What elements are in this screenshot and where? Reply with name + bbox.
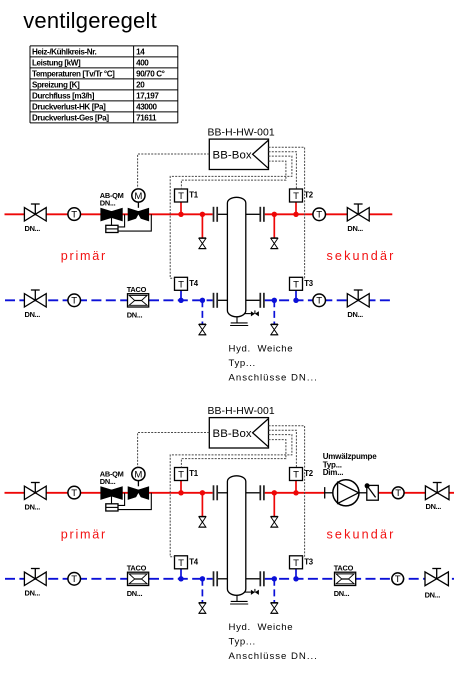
sensor box A-T4 temperature sensor xyxy=(175,277,199,290)
svg-text:ventilgeregelt: ventilgeregelt xyxy=(23,8,157,33)
svg-text:DN...: DN... xyxy=(25,310,41,319)
wire signal B BB-Box to sensor T3 (dashed) xyxy=(269,426,305,557)
svg-text:T: T xyxy=(71,488,77,499)
wire signal A BB-Box to sensor T2 (dashed) xyxy=(269,152,297,189)
wire red drop to left drain B xyxy=(201,493,203,517)
svg-text:T: T xyxy=(71,210,77,221)
wire black pump discharge segment B xyxy=(359,492,367,494)
wire signal B BB-Box to sensor T2 (dashed) xyxy=(269,430,297,467)
svg-text:BB-H-HW-001: BB-H-HW-001 xyxy=(208,406,275,417)
sensor box B-T4 temperature sensor xyxy=(175,556,199,569)
svg-text:T: T xyxy=(293,470,299,481)
svg-text:T1: T1 xyxy=(189,191,198,200)
wire red supply pipe A left segment xyxy=(5,213,213,215)
wire signal A BB-Box to sensor T1 (dashed) xyxy=(181,161,286,189)
valve shutoff A-V7 blue return DN... xyxy=(24,290,46,319)
svg-text:14: 14 xyxy=(136,47,145,56)
svg-text:TACO: TACO xyxy=(127,563,147,572)
wire blue drop to right drain B (dashed) xyxy=(273,579,275,603)
drain valve KFE B blue left xyxy=(199,603,206,614)
flange pair B red left xyxy=(214,485,218,500)
svg-text:Druckverlust-HK [Pa]: Druckverlust-HK [Pa] xyxy=(32,102,106,111)
thermometer B-TH3 blue sekundaer xyxy=(392,573,404,585)
svg-text:TACO: TACO xyxy=(127,285,147,294)
svg-text:M: M xyxy=(134,191,142,202)
svg-text:Typ...: Typ... xyxy=(229,358,256,369)
wire black stub B separator to blue-right flange xyxy=(246,578,260,580)
svg-text:T: T xyxy=(293,558,299,569)
node A red junction T2-tap xyxy=(293,212,298,217)
wire red stub T2 sensor to pipe A xyxy=(295,202,297,214)
wire red drop to left drain A xyxy=(201,214,203,238)
flange pair A red left xyxy=(214,207,218,222)
svg-text:sekundär: sekundär xyxy=(327,249,394,263)
svg-text:BB-H-HW-001: BB-H-HW-001 xyxy=(208,128,275,139)
valve shutoff B-V7 blue return DN... xyxy=(24,569,46,598)
svg-text:Hyd. Weiche: Hyd. Weiche xyxy=(229,344,293,355)
svg-text:DN...: DN... xyxy=(127,310,143,319)
sensor box A-T2 temperature sensor xyxy=(290,189,314,202)
flange pair B red right xyxy=(260,485,264,500)
ground / drain symbol below separator A xyxy=(230,317,248,326)
svg-text:T1: T1 xyxy=(189,469,198,478)
controller BB-Box B-U1 with label BB-H-HW-001 xyxy=(208,406,275,448)
wire black stub A blue-left to separator xyxy=(218,299,227,301)
valve AB-QM A-V2 (flow limiter, filled) with membrane box and capillaries xyxy=(100,191,152,233)
svg-text:T4: T4 xyxy=(189,557,198,566)
svg-text:DN...: DN... xyxy=(25,502,41,511)
svg-text:43000: 43000 xyxy=(136,102,157,111)
wire blue stub T3 sensor to pipe A xyxy=(295,290,297,300)
node B red junction T2-tap xyxy=(293,490,298,495)
wire blue drop to left drain A (dashed) xyxy=(201,300,203,324)
valve shutoff A-V1 red primaer DN... xyxy=(24,204,46,233)
wire black stub B red-left to separator xyxy=(218,492,227,494)
node B blue junction T3-tap xyxy=(293,576,298,581)
svg-text:Anschlüsse DN...: Anschlüsse DN... xyxy=(229,373,317,384)
wire red drop to right drain A xyxy=(273,214,275,238)
svg-text:TACO: TACO xyxy=(334,563,354,572)
valve shutoff B-V5 red sekundaer DN... xyxy=(425,483,449,512)
svg-text:Leistung [kW]: Leistung [kW] xyxy=(32,58,81,67)
svg-text:T: T xyxy=(395,488,401,499)
wire red stub T1 sensor to pipe A xyxy=(180,202,182,214)
label Hyd. Weiche caption B xyxy=(229,622,317,662)
wire blue return pipe B right segment (dashed) xyxy=(265,578,454,580)
thermometer B-TH1 red primaer xyxy=(68,486,81,499)
thermometer A-TH2 red sekundaer xyxy=(313,208,326,221)
svg-text:DN...: DN... xyxy=(347,224,363,233)
wire blue return pipe A left segment (dashed) xyxy=(5,299,213,301)
drain valve KFE A red left xyxy=(199,238,206,249)
drain cock at separator bottom B xyxy=(244,589,259,595)
node B blue junction right drain tap xyxy=(272,576,277,581)
svg-text:Temperaturen [Tv/Tr °C]: Temperaturen [Tv/Tr °C] xyxy=(32,69,115,78)
wire red supply pipe B after check valve xyxy=(378,492,454,494)
flange pair A blue right xyxy=(260,293,264,308)
motor actuator A-M1 (M drive on valve V3) xyxy=(132,189,145,208)
TACO balancing fitting A-F1 on blue return left xyxy=(127,285,149,319)
wire red drop to right drain B xyxy=(273,493,275,517)
sensor box A-T1 temperature sensor xyxy=(175,189,199,202)
wire red stub T1 sensor to pipe B xyxy=(180,481,182,493)
svg-text:T2: T2 xyxy=(304,191,313,200)
pump B-P1 Umwaelzpumpe (circle with flow triangle) xyxy=(333,480,359,506)
wire black stub A separator to blue-right flange xyxy=(246,299,260,301)
label Hyd. Weiche caption A xyxy=(229,344,317,384)
svg-text:DN...: DN... xyxy=(25,224,41,233)
drain valve KFE B blue right xyxy=(271,603,278,614)
drain valve KFE B red right xyxy=(271,516,278,527)
svg-text:T4: T4 xyxy=(189,279,198,288)
label Umwaelzpumpe Typ Dim B xyxy=(323,452,378,477)
valve shutoff A-V6 blue sekundaer DN... xyxy=(347,290,369,319)
thermometer B-TH2 red sekundaer xyxy=(392,487,404,499)
valve shutoff B-V1 red primaer DN... xyxy=(24,483,46,512)
valve shutoff B-V6 blue sekundaer DN... xyxy=(425,569,449,600)
node B red junction T1-tap xyxy=(178,490,183,495)
node B red junction left drain tap xyxy=(200,490,205,495)
svg-text:T: T xyxy=(316,210,322,221)
svg-text:Dim...: Dim... xyxy=(323,468,344,477)
svg-text:Hyd. Weiche: Hyd. Weiche xyxy=(229,622,293,633)
svg-text:DN...: DN... xyxy=(127,589,143,598)
TACO balancing fitting B-F2 on blue return sekundaer xyxy=(334,563,356,597)
sensor box B-T2 temperature sensor xyxy=(290,468,314,481)
svg-text:T: T xyxy=(178,191,184,202)
sensor box B-T3 temperature sensor xyxy=(290,556,314,569)
wire red stub T2 sensor to pipe B xyxy=(295,481,297,493)
node B blue junction left drain tap xyxy=(200,576,205,581)
svg-text:20: 20 xyxy=(136,80,145,89)
wire black stub B blue-left to separator xyxy=(218,578,227,580)
svg-text:BB-Box: BB-Box xyxy=(213,150,252,162)
svg-text:DN...: DN... xyxy=(334,589,350,598)
svg-text:Durchfluss [m3/h]: Durchfluss [m3/h] xyxy=(32,91,95,100)
ground / drain symbol below separator B xyxy=(230,595,248,604)
wire black stub B separator to red-right flange xyxy=(246,492,260,494)
valve AB-QM B-V2 (flow limiter, filled) with membrane box and capillaries xyxy=(100,469,152,511)
wire blue drop to right drain A (dashed) xyxy=(273,300,275,324)
valve shutoff A-V5 red sekundaer DN... xyxy=(347,204,369,233)
wire signal B BB-Box to sensor T4 (dashed) xyxy=(170,435,292,557)
wire signal A BB-Box to sensor T4 (dashed) xyxy=(170,156,292,278)
node A red junction left drain tap xyxy=(200,212,205,217)
svg-text:17,197: 17,197 xyxy=(136,91,159,100)
wire signal B BB-Box to sensor T1 (dashed) xyxy=(181,440,286,468)
hydraulic separator vessel A-W1 (Hyd. Weiche) xyxy=(227,197,245,317)
drain cock at separator bottom A xyxy=(244,310,259,316)
wire red supply pipe B right segment to pump inlet flange xyxy=(265,492,325,494)
wire black stub A separator to red-right flange xyxy=(246,213,260,215)
node A blue junction T4-tap xyxy=(178,298,183,303)
node A blue junction left drain tap xyxy=(200,298,205,303)
svg-text:M: M xyxy=(134,469,142,480)
drain valve KFE A blue right xyxy=(271,324,278,335)
svg-text:Anschlüsse DN...: Anschlüsse DN... xyxy=(229,651,317,662)
svg-text:sekundär: sekundär xyxy=(327,528,394,542)
node B red junction right drain tap xyxy=(272,490,277,495)
svg-text:T3: T3 xyxy=(304,557,313,566)
controller BB-Box A-U1 with label BB-H-HW-001 xyxy=(208,128,275,170)
svg-text:primär: primär xyxy=(61,249,105,263)
svg-text:Spreizung [K]: Spreizung [K] xyxy=(32,80,80,89)
node A red junction right drain tap xyxy=(272,212,277,217)
drain valve KFE B red left xyxy=(199,516,206,527)
svg-text:DN...: DN... xyxy=(426,502,442,511)
thermometer B-TH4 blue return left xyxy=(68,573,81,586)
node A blue junction T3-tap xyxy=(293,298,298,303)
wire blue return pipe B left segment (dashed) xyxy=(5,578,213,580)
svg-text:Heiz-/Kühlkreis-Nr.: Heiz-/Kühlkreis-Nr. xyxy=(32,47,97,56)
svg-text:Typ...: Typ... xyxy=(229,637,256,648)
hydraulic separator vessel B-W1 (Hyd. Weiche) xyxy=(227,476,245,596)
svg-text:T: T xyxy=(293,191,299,202)
svg-text:Druckverlust-Ges [Pa]: Druckverlust-Ges [Pa] xyxy=(32,113,109,122)
svg-text:T: T xyxy=(178,470,184,481)
drain valve KFE A red right xyxy=(271,238,278,249)
wire blue stub T4 sensor to pipe A xyxy=(180,290,182,300)
flange pair B blue left xyxy=(214,571,218,586)
motor actuator B-M1 (M drive on valve V3) xyxy=(132,467,145,486)
thermometer A-TH3 blue sekundaer xyxy=(313,294,326,307)
wire red supply pipe A right segment xyxy=(265,213,393,215)
drain valve KFE A blue left xyxy=(199,324,206,335)
wire blue return pipe A right segment (dashed) xyxy=(265,299,393,301)
svg-text:400: 400 xyxy=(136,58,149,67)
svg-text:T: T xyxy=(178,558,184,569)
flange tick before pump B xyxy=(324,487,326,498)
svg-text:T2: T2 xyxy=(304,469,313,478)
svg-text:71611: 71611 xyxy=(136,113,157,122)
table circuit data (Heiz-/Kuehlkreis) xyxy=(30,46,178,123)
wire blue stub T3 sensor to pipe B xyxy=(295,569,297,579)
svg-text:T3: T3 xyxy=(304,279,313,288)
svg-text:primär: primär xyxy=(61,528,105,542)
node B blue junction T4-tap xyxy=(178,576,183,581)
svg-text:T: T xyxy=(71,296,77,307)
check valve B-RV1 (non-return flap) xyxy=(365,483,379,500)
thermometer A-TH1 red primaer xyxy=(68,208,81,221)
svg-text:T: T xyxy=(178,280,184,291)
TACO balancing fitting B-F1 on blue return left xyxy=(127,563,149,597)
flange pair B blue right xyxy=(260,571,264,586)
svg-text:90/70 C°: 90/70 C° xyxy=(136,69,165,78)
wire blue stub T4 sensor to pipe B xyxy=(180,569,182,579)
svg-text:DN...: DN... xyxy=(100,198,116,207)
thermometer A-TH4 blue return left xyxy=(68,294,81,307)
svg-text:DN...: DN... xyxy=(425,590,441,599)
svg-text:DN...: DN... xyxy=(25,588,41,597)
wire signal A BB-Box to sensor T3 (dashed) xyxy=(269,147,305,278)
wire signal B BB-Box to motor M1 (dashed) xyxy=(138,433,210,468)
svg-text:T: T xyxy=(395,574,401,585)
wire red supply pipe B left segment xyxy=(5,492,213,494)
node A red junction T1-tap xyxy=(178,212,183,217)
svg-text:T: T xyxy=(316,296,322,307)
sensor box B-T1 temperature sensor xyxy=(175,468,199,481)
svg-text:BB-Box: BB-Box xyxy=(213,428,252,440)
wire blue drop to left drain B (dashed) xyxy=(201,579,203,603)
flange pair A red right xyxy=(260,207,264,222)
wire signal A BB-Box to motor M1 (dashed) xyxy=(138,154,210,189)
valve motorised control B-V3 (filled, with seat notch) xyxy=(128,486,149,500)
svg-text:T: T xyxy=(71,574,77,585)
wire black stub A red-left to separator xyxy=(218,213,227,215)
flange pair A blue left xyxy=(214,293,218,308)
svg-text:T: T xyxy=(293,280,299,291)
valve motorised control A-V3 (filled, with seat notch) xyxy=(128,208,149,222)
svg-text:DN...: DN... xyxy=(347,310,363,319)
sensor box A-T3 temperature sensor xyxy=(290,277,314,290)
node A blue junction right drain tap xyxy=(272,298,277,303)
wire black pump suction segment B xyxy=(325,492,333,494)
svg-text:DN...: DN... xyxy=(100,477,116,486)
